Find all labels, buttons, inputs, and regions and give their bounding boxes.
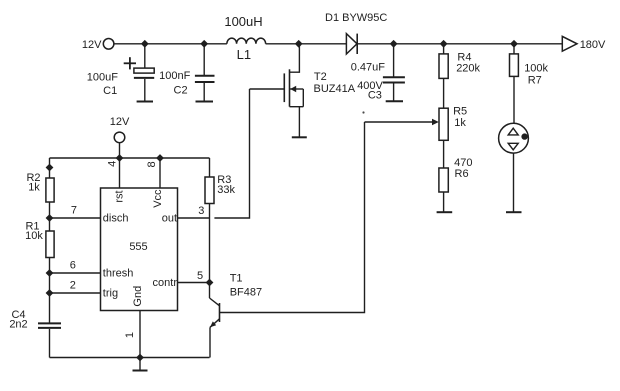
- svg-text:BUZ41A: BUZ41A: [314, 83, 356, 95]
- wire R4 to R5: [443, 78, 445, 108]
- resistor R4: [439, 44, 448, 79]
- ground C3: [386, 100, 403, 102]
- wire top rail left: [114, 43, 227, 45]
- resistor R2: [46, 178, 54, 202]
- wire Gnd pin 1: [139, 311, 141, 358]
- inductor L1: [227, 38, 266, 44]
- node junction pin6: [46, 269, 54, 277]
- wire contr pin 5: [178, 282, 210, 284]
- svg-text:disch: disch: [103, 213, 129, 225]
- ground main: [133, 358, 148, 371]
- svg-text:100uH: 100uH: [224, 14, 262, 29]
- node junction C1: [141, 40, 149, 48]
- svg-text:7: 7: [71, 205, 77, 217]
- wire 555 supply rail: [50, 157, 210, 159]
- svg-text:2: 2: [70, 280, 76, 292]
- svg-text:100nF: 100nF: [159, 70, 190, 82]
- svg-text:C1: C1: [103, 85, 117, 97]
- transistor T1: [210, 283, 220, 358]
- node junction C3: [390, 40, 398, 48]
- node junction R7: [510, 40, 518, 48]
- svg-text:0.47uF: 0.47uF: [351, 62, 386, 74]
- ground T2 source: [292, 136, 307, 138]
- svg-text:thresh: thresh: [103, 268, 134, 280]
- svg-text:D1 BYW95C: D1 BYW95C: [325, 12, 387, 24]
- wire trig pin 2: [50, 292, 101, 294]
- wire out to contr: [209, 218, 211, 283]
- svg-text:rst: rst: [113, 190, 125, 202]
- node junction T2 drain: [295, 40, 303, 48]
- resistor R1: [46, 231, 54, 258]
- svg-text:R5: R5: [453, 106, 467, 118]
- svg-text:R6: R6: [455, 168, 469, 180]
- ground R6: [437, 211, 453, 213]
- svg-text:5: 5: [197, 270, 203, 282]
- wire out pin 3: [178, 217, 210, 219]
- node junction pin8: [156, 154, 164, 162]
- wire pin 4 stub: [119, 158, 121, 188]
- svg-text:out: out: [162, 212, 177, 224]
- svg-text:4: 4: [106, 161, 118, 167]
- wire R2 to R1: [49, 202, 51, 231]
- lamp neon: [499, 123, 529, 211]
- svg-text:T2: T2: [314, 71, 327, 83]
- svg-text:contr: contr: [153, 277, 178, 289]
- svg-text:1: 1: [124, 332, 136, 338]
- wire T1 collector to R5 wiper: [220, 122, 365, 313]
- terminal 180V output arrow: [562, 36, 577, 51]
- node junction pin7: [46, 214, 54, 222]
- svg-text:6: 6: [70, 260, 76, 272]
- node junction C2: [200, 40, 208, 48]
- wire out to gate: [214, 89, 249, 218]
- svg-text:C2: C2: [174, 84, 188, 96]
- ground lamp: [506, 211, 522, 213]
- svg-text:8: 8: [146, 161, 158, 167]
- svg-text:10k: 10k: [25, 230, 43, 242]
- op-amp U1 555 box: [101, 188, 178, 311]
- wire pin 8 stub: [159, 158, 161, 188]
- resistor R7: [510, 44, 519, 124]
- svg-text:100k: 100k: [524, 63, 548, 75]
- wire thresh pin 6: [50, 272, 101, 274]
- svg-text:33k: 33k: [217, 184, 235, 196]
- wire T2 gate: [250, 88, 285, 90]
- svg-text:L1: L1: [237, 47, 251, 62]
- node junction pin4: [116, 154, 124, 162]
- terminal 12V input: [103, 39, 114, 50]
- capacitor C2: [195, 44, 215, 102]
- wire R1 to C4: [49, 258, 51, 324]
- node junction contr: [206, 279, 214, 287]
- svg-text:C3: C3: [368, 89, 382, 101]
- node junction left rail top: [46, 164, 54, 172]
- svg-text:BF487: BF487: [230, 286, 262, 298]
- wire R5 to R6: [443, 140, 445, 168]
- svg-text:3: 3: [198, 205, 204, 217]
- svg-text:220k: 220k: [456, 62, 480, 74]
- svg-text:12V: 12V: [82, 39, 102, 51]
- terminal 12V supply 555: [114, 132, 125, 158]
- capacitor C3: [383, 44, 405, 101]
- svg-text:T1: T1: [230, 272, 243, 284]
- svg-text:180V: 180V: [580, 39, 606, 51]
- svg-text:R7: R7: [528, 75, 542, 87]
- wire top rail right: [357, 43, 562, 45]
- svg-text:2n2: 2n2: [9, 319, 27, 331]
- svg-text:1k: 1k: [28, 182, 40, 194]
- ground C2: [196, 101, 214, 103]
- svg-text:Gnd: Gnd: [132, 286, 144, 307]
- node junction ground: [136, 354, 144, 362]
- stray dot: [362, 111, 364, 113]
- node junction pin2: [46, 289, 54, 297]
- resistor R6: [439, 168, 448, 212]
- capacitor C1: [124, 44, 155, 102]
- svg-text:12V: 12V: [110, 116, 130, 128]
- diode D1: [346, 34, 357, 54]
- svg-text:trig: trig: [103, 288, 118, 300]
- wire disch pin 7: [50, 217, 101, 219]
- transistor T2 MOSFET: [284, 44, 303, 137]
- svg-text:1k: 1k: [454, 117, 466, 129]
- capacitor C4: [38, 323, 61, 357]
- svg-text:Vcc: Vcc: [152, 189, 164, 208]
- node junction R4: [440, 40, 448, 48]
- wire bottom rail: [50, 357, 210, 359]
- wire R3 top feed: [209, 158, 211, 177]
- potentiometer R5: [365, 108, 449, 140]
- ground C1: [137, 101, 153, 103]
- svg-text:555: 555: [129, 241, 147, 253]
- wire top rail middle: [266, 43, 347, 45]
- svg-text:100uF: 100uF: [87, 71, 118, 83]
- resistor R3: [205, 177, 214, 218]
- wire left rail upper: [49, 158, 51, 178]
